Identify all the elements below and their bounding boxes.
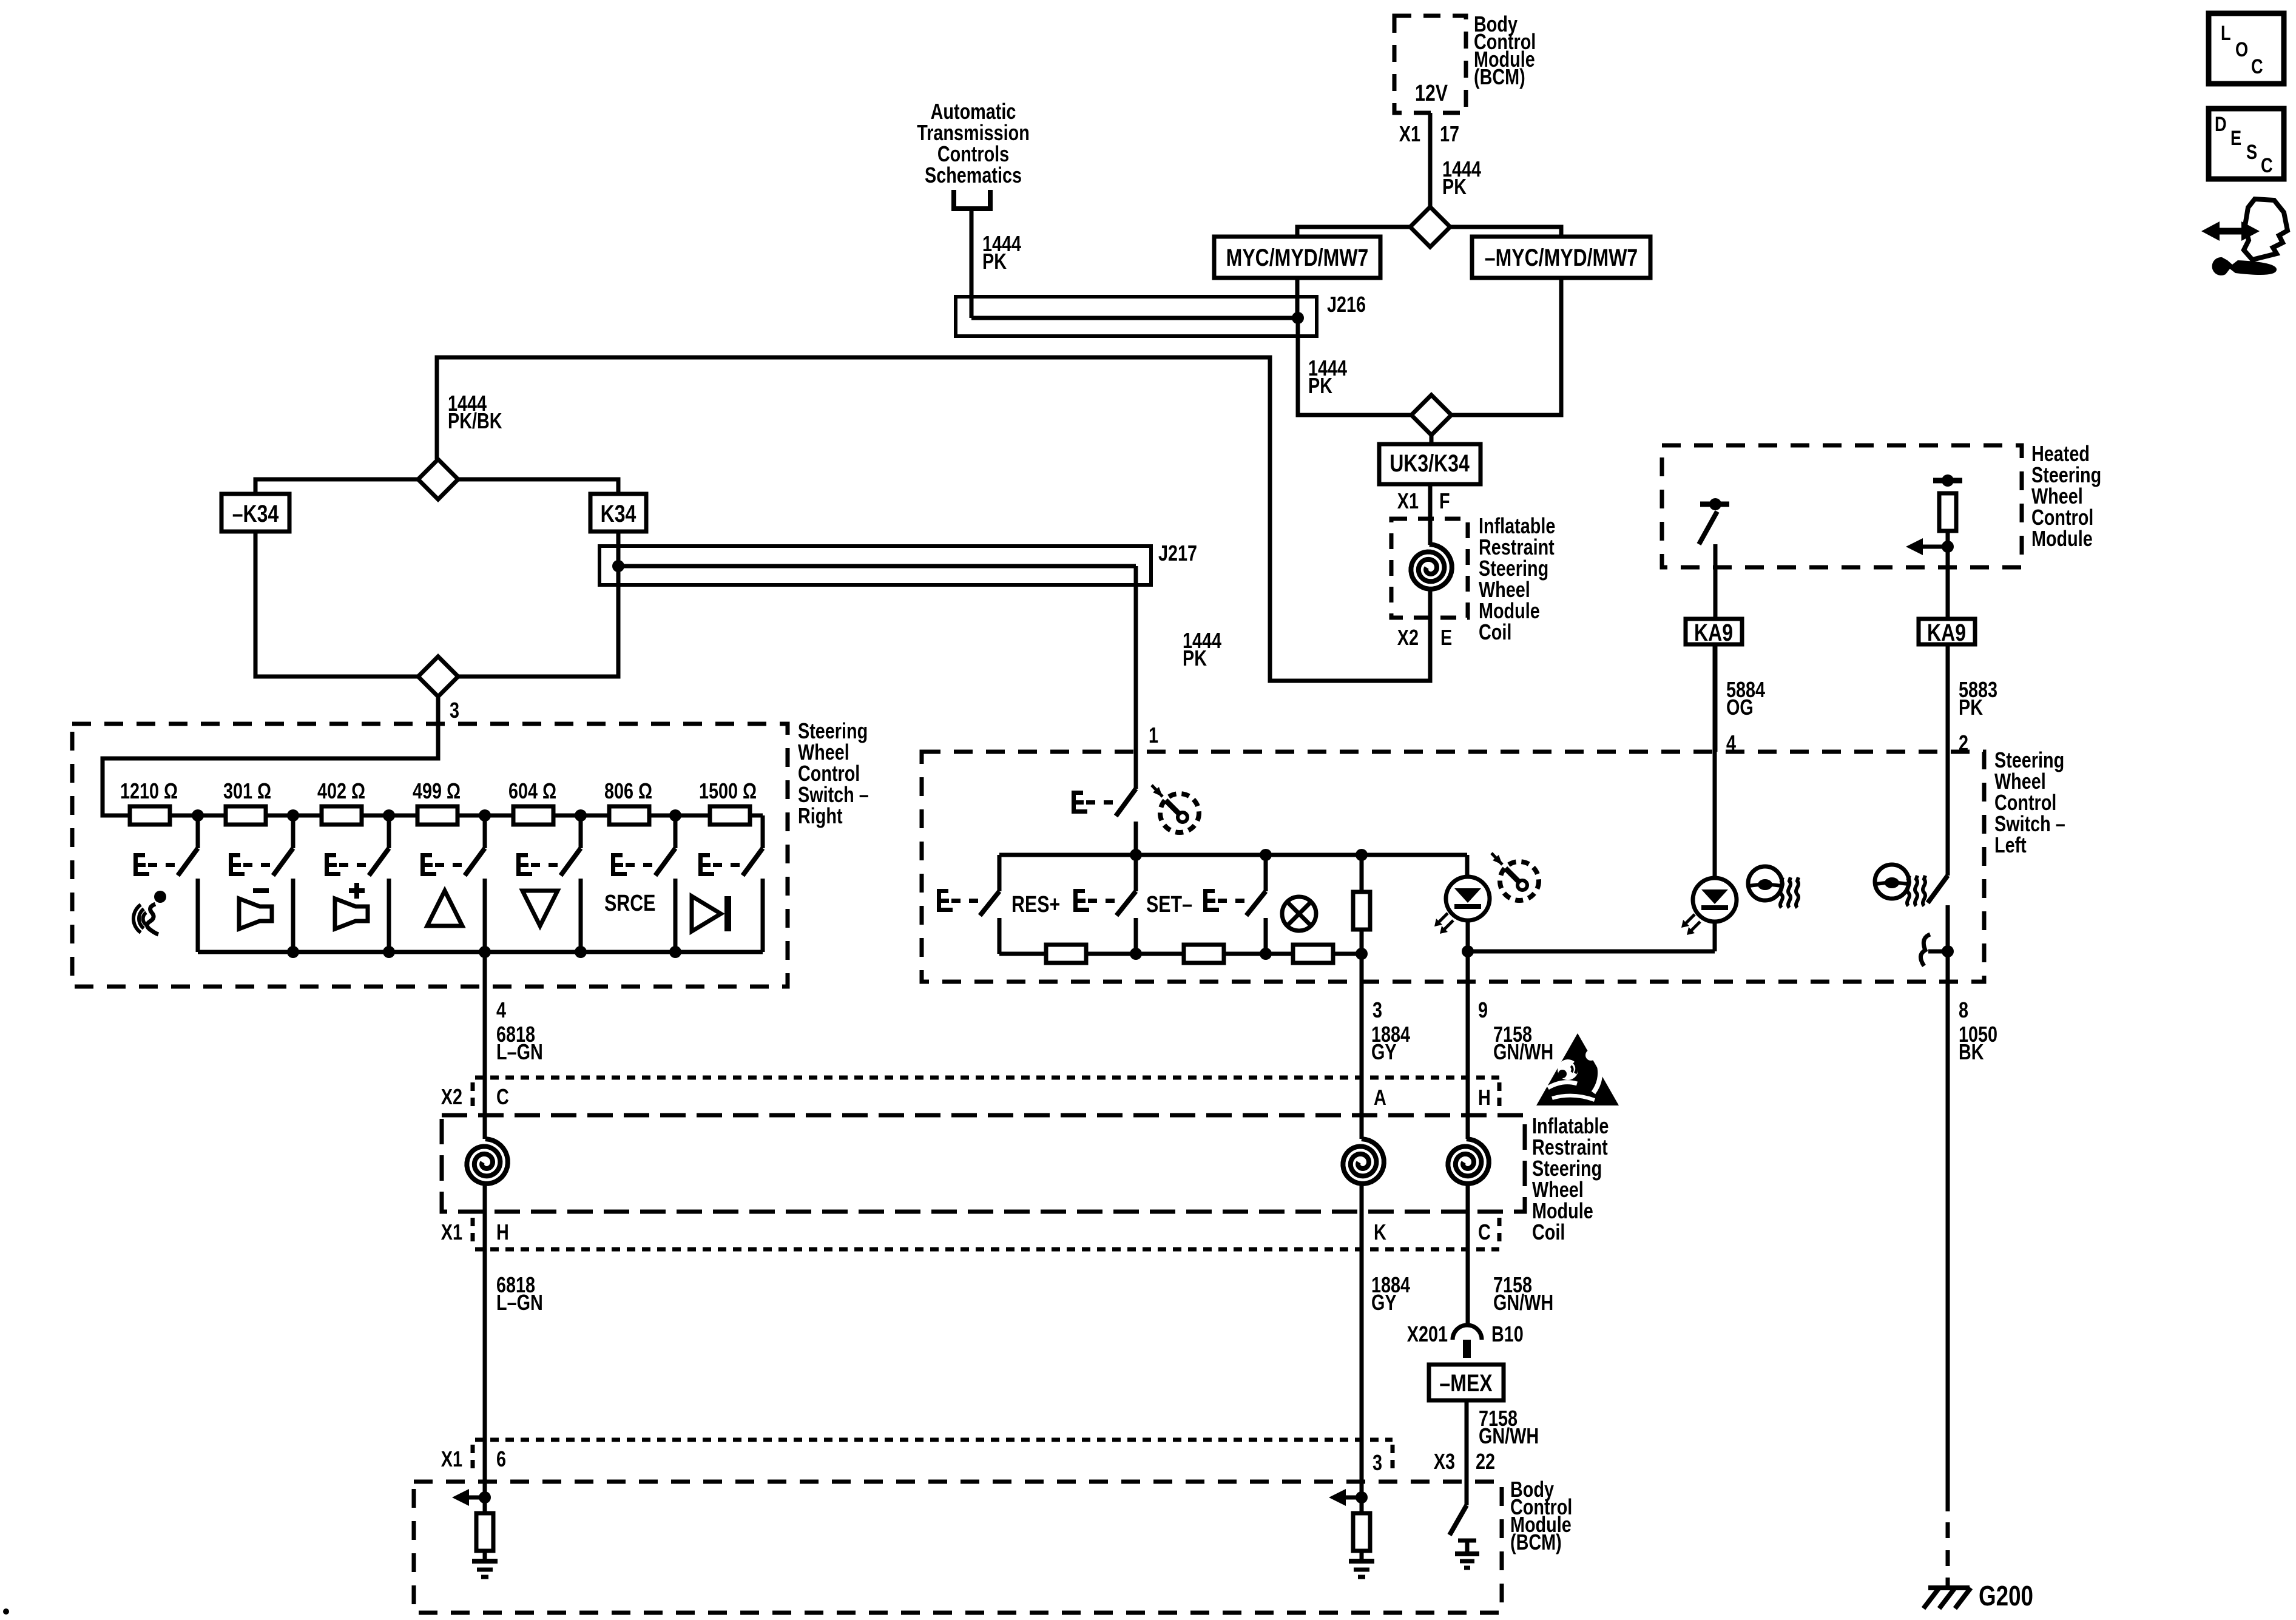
icon speaker minus (volume down): [253, 888, 269, 893]
svg-text:GY: GY: [1371, 1290, 1397, 1315]
junction node: [1356, 849, 1368, 861]
junction node: [383, 809, 395, 822]
wire cruise bus upper: [999, 853, 1467, 857]
wire 1050 BK dashed to ground: [1946, 1522, 1950, 1578]
junction node: [1260, 849, 1272, 861]
sense resistor element: [1933, 478, 1962, 484]
icon seek up triangle: [427, 891, 462, 926]
svg-text:KA9: KA9: [1927, 619, 1966, 646]
switch cruise on/off: [1116, 789, 1136, 816]
wire S2 to UK3/K34: [1430, 435, 1434, 444]
svg-text:KA9: KA9: [1694, 619, 1733, 646]
svg-text:J217: J217: [1158, 541, 1197, 565]
svg-text:X2: X2: [1397, 625, 1419, 650]
svg-text:D: D: [2215, 112, 2227, 136]
svg-text:GN/WH: GN/WH: [1493, 1290, 1553, 1315]
svg-text:Module: Module: [2031, 526, 2093, 551]
svg-text:X3: X3: [1434, 1449, 1455, 1474]
junction node: [1462, 945, 1474, 957]
wire 1050 BK: [1946, 980, 1950, 1511]
svg-text:4: 4: [496, 997, 506, 1022]
svg-text:Coil: Coil: [1479, 619, 1511, 644]
svg-text:X1: X1: [441, 1220, 462, 1244]
fuse KA9 left: [1686, 619, 1742, 644]
svg-text:H: H: [1478, 1085, 1491, 1110]
svg-text:6: 6: [496, 1446, 506, 1471]
resistor 1210 ohm: [130, 806, 170, 825]
wire S3 to -K34: [255, 479, 418, 494]
wire -MEX to BCM: [1465, 1400, 1469, 1505]
junction node bus: [383, 946, 395, 958]
junction node: [1130, 849, 1142, 861]
svg-text:RES+: RES+: [1011, 892, 1060, 917]
junction node: [192, 809, 204, 822]
wire coil low side loop: [437, 357, 1430, 681]
option box -K34: [221, 494, 289, 532]
svg-text:H: H: [496, 1220, 509, 1244]
junction node bus: [287, 946, 299, 958]
svg-text:GN/WH: GN/WH: [1479, 1423, 1539, 1448]
connector row X1: [475, 1247, 1499, 1252]
svg-text:806 Ω: 806 Ω: [604, 778, 652, 803]
wire cruise bus lower with resistors: [999, 952, 1362, 956]
junction node bus: [669, 946, 681, 958]
splice pack J217: [599, 546, 1151, 585]
svg-text:J216: J216: [1327, 292, 1366, 317]
wire 6818 L-GN: [483, 952, 487, 1139]
DESC reference box: [2209, 109, 2284, 179]
wire S3 to K34: [458, 479, 618, 494]
svg-text:301 Ω: 301 Ω: [223, 778, 271, 803]
resistor 806 ohm: [609, 806, 649, 825]
icon speedometer cruise indicator: [1500, 862, 1539, 900]
module BCM top dashed box: [1394, 16, 1466, 113]
module inflatable restraint coil dashed box (bottom): [442, 1115, 1525, 1212]
switch S3 right-box: [387, 815, 391, 848]
svg-text:3: 3: [1373, 997, 1382, 1022]
switch RES+: [998, 855, 1002, 891]
interactive navigation icon: [2216, 228, 2246, 235]
svg-text:L–GN: L–GN: [496, 1039, 543, 1064]
wire resistor ladder row: [103, 814, 763, 818]
resistor 1500 ohm: [710, 806, 750, 825]
svg-text:C: C: [2251, 55, 2263, 78]
ground internal: [1458, 1539, 1476, 1543]
fuse KA9 right: [1919, 619, 1975, 644]
svg-text:C: C: [2261, 154, 2273, 177]
page dot: [3, 1608, 9, 1615]
arrow signal left: [1341, 1496, 1362, 1500]
module Steering Wheel Control Switch - Right dashed box: [72, 724, 788, 987]
svg-text:PK: PK: [1183, 646, 1207, 670]
svg-text:–K34: –K34: [232, 500, 279, 527]
junction node: [1130, 948, 1142, 960]
wire 1884 GY: [1360, 954, 1364, 1139]
resistor 402 ohm: [322, 806, 362, 825]
svg-text:1210 Ω: 1210 Ω: [120, 778, 178, 803]
junction node bus: [479, 946, 491, 958]
wire 5883 PK: [1946, 644, 1950, 752]
warning airbag triangle: [1536, 1033, 1619, 1105]
svg-text:O: O: [2235, 38, 2248, 61]
module BCM bottom dashed box: [414, 1482, 1502, 1613]
svg-text:PK: PK: [1442, 174, 1467, 199]
splice S1 diamond: [1410, 207, 1450, 247]
LED heated indicator: [1713, 644, 1717, 879]
svg-text:L: L: [2221, 21, 2231, 45]
junction node momentary: [1942, 945, 1954, 957]
svg-text:PK/BK: PK/BK: [448, 408, 502, 433]
junction node: [575, 809, 587, 822]
wire 1444 PK from J216 to S2: [1298, 318, 1411, 415]
svg-text:12V: 12V: [1415, 81, 1448, 106]
svg-text:X1: X1: [1397, 488, 1419, 513]
svg-text:3: 3: [450, 698, 459, 723]
svg-text:A: A: [1374, 1085, 1386, 1110]
splice pack J216: [956, 297, 1317, 336]
switch SET-: [1134, 855, 1138, 891]
wire bottom bus right box: [198, 950, 763, 954]
svg-text:B10: B10: [1491, 1321, 1524, 1346]
svg-text:(BCM): (BCM): [1474, 64, 1525, 89]
wire S4 into right switch: [103, 697, 438, 815]
arrow feedback: [1918, 545, 1948, 549]
svg-text:MYC/MYD/MW7: MYC/MYD/MW7: [1226, 244, 1369, 271]
coil clockspring spiral (6818): [467, 1139, 507, 1184]
wire UK3/K34 to coil: [1428, 484, 1433, 545]
svg-text:GY: GY: [1371, 1039, 1397, 1064]
switch S6 right-box: [674, 815, 678, 848]
svg-text:BK: BK: [1959, 1039, 1984, 1064]
svg-text:3: 3: [1373, 1450, 1382, 1475]
svg-text:(BCM): (BCM): [1510, 1530, 1562, 1554]
wire 5884 OG: [1714, 644, 1718, 752]
svg-text:4: 4: [1726, 731, 1736, 755]
wire MYC down to J216: [1295, 278, 1300, 318]
switch S5 right-box: [579, 815, 583, 848]
coil clockspring spiral (7158): [1448, 1139, 1488, 1184]
svg-text:Right: Right: [798, 803, 843, 828]
svg-text:Left: Left: [1994, 832, 2027, 857]
wire K34 down through J217: [458, 532, 618, 677]
wire LED link: [1468, 950, 1715, 954]
junction node: [1260, 948, 1272, 960]
svg-text:UK3/K34: UK3/K34: [1389, 450, 1470, 477]
coil clockspring spiral (top): [1411, 544, 1451, 589]
switch S2 right-box: [291, 815, 295, 848]
resistor pull-up: [476, 1513, 493, 1551]
svg-text:499 Ω: 499 Ω: [413, 778, 461, 803]
icon next track: [692, 896, 721, 931]
svg-text:Coil: Coil: [1532, 1220, 1565, 1244]
junction node: [287, 809, 299, 822]
option box UK3/K34: [1379, 444, 1481, 484]
icon heated wheel B: [1875, 865, 1909, 899]
resistor cruise R2: [1184, 945, 1224, 963]
connector box inflatable restraint coil (top): [1391, 519, 1468, 618]
svg-text:SRCE: SRCE: [604, 891, 655, 916]
connector row X1 bottom: [475, 1438, 1393, 1442]
resistor pull-up: [1353, 1513, 1370, 1551]
svg-text:402 Ω: 402 Ω: [317, 778, 365, 803]
svg-text:E: E: [1440, 625, 1452, 650]
BCM driver switch 7158: [1450, 1505, 1467, 1535]
junction node: [669, 809, 681, 822]
icon speaker plus (volume up): [349, 888, 365, 893]
svg-text:X2: X2: [441, 1084, 462, 1109]
svg-text:604 Ω: 604 Ω: [508, 778, 556, 803]
svg-text:8: 8: [1959, 997, 1968, 1022]
svg-text:K34: K34: [601, 500, 636, 527]
resistor cruise R3: [1293, 945, 1333, 963]
svg-text:2: 2: [1959, 731, 1968, 755]
svg-text:G200: G200: [1979, 1580, 2033, 1612]
resistor 301 ohm: [226, 806, 266, 825]
module Steering Wheel Control Switch - Left dashed box: [922, 752, 1984, 982]
coil clockspring spiral (1884): [1343, 1139, 1383, 1184]
icon cancel lamp: [1282, 897, 1316, 931]
BCM input 1884: junction: [1360, 1482, 1364, 1516]
ground G200 chassis: [1946, 1578, 1950, 1588]
junction node bus: [575, 946, 587, 958]
svg-text:SET–: SET–: [1146, 892, 1192, 917]
wire 1444 PK to cruise switch (circuit 1): [1134, 566, 1138, 789]
option box -MEX: [1429, 1365, 1504, 1400]
junction node: [1356, 948, 1368, 960]
svg-text:K: K: [1374, 1220, 1386, 1244]
wire BCM X1-17 down: [1428, 113, 1433, 207]
svg-text:F: F: [1439, 488, 1450, 513]
arrow signal left: [464, 1496, 485, 1500]
svg-text:X1: X1: [441, 1446, 462, 1471]
svg-text:9: 9: [1478, 997, 1488, 1022]
svg-text:X1: X1: [1399, 121, 1420, 146]
resistor 604 ohm: [513, 806, 553, 825]
resistor vertical cruise: [1360, 855, 1364, 892]
svg-text:OG: OG: [1726, 695, 1754, 720]
wire -MYC down to S2: [1451, 278, 1561, 415]
svg-text:PK: PK: [982, 249, 1007, 274]
svg-text:E: E: [2230, 126, 2241, 150]
svg-text:C: C: [1478, 1220, 1491, 1244]
switch cancel: [1264, 855, 1268, 891]
option box -MYC/MYD/MW7: [1472, 237, 1650, 278]
LOC reference box: [2209, 13, 2284, 84]
splice S3 diamond: [418, 459, 458, 499]
svg-text:C: C: [496, 1084, 509, 1109]
svg-text:–MYC/MYD/MW7: –MYC/MYD/MW7: [1485, 244, 1638, 271]
svg-text:PK: PK: [1308, 373, 1332, 398]
icon seek down triangle: [522, 891, 558, 926]
switch heated on/off: [1946, 644, 1950, 876]
svg-text:1: 1: [1149, 723, 1158, 748]
svg-text:PK: PK: [1959, 695, 1983, 720]
svg-text:L–GN: L–GN: [496, 1290, 543, 1315]
wire -K34 down: [255, 532, 418, 677]
splice S2 diamond: [1411, 395, 1451, 435]
icon cruise speedometer: [1160, 794, 1199, 832]
BCM input 6818: junction: [483, 1482, 487, 1516]
option box MYC/MYD/MW7: [1214, 237, 1380, 278]
svg-text:17: 17: [1440, 121, 1459, 146]
option box K34: [590, 494, 646, 532]
svg-text:GN/WH: GN/WH: [1493, 1039, 1553, 1064]
svg-text:Schematics: Schematics: [925, 163, 1022, 187]
module Heated Steering Wheel Control Module dashed box: [1662, 445, 2022, 567]
splice S4 diamond: [418, 656, 458, 697]
icon heated wheel A: [1748, 866, 1782, 900]
svg-text:–MEX: –MEX: [1439, 1369, 1492, 1397]
svg-text:S: S: [2246, 140, 2257, 164]
ground internal: [1349, 1559, 1374, 1564]
switch S1 right-box: [196, 815, 200, 848]
svg-text:1500 Ω: 1500 Ω: [699, 778, 757, 803]
switch S4 right-box: [483, 815, 487, 848]
junction node: [1942, 541, 1954, 553]
svg-text:22: 22: [1476, 1449, 1495, 1474]
LED cruise indicator: [1465, 855, 1470, 877]
junction node: [479, 809, 491, 822]
svg-text:X201: X201: [1407, 1321, 1448, 1346]
wire to MYC option: [1297, 227, 1410, 237]
icon voice recognition: [143, 913, 146, 925]
ground internal: [472, 1559, 498, 1564]
driver switch element: [1700, 502, 1729, 507]
switch S7 right-box: [761, 815, 765, 848]
wire to -MYC option: [1450, 227, 1561, 237]
resistor 499 ohm: [417, 806, 458, 825]
connector row X2: [475, 1076, 1499, 1080]
wire from AT controls: [970, 209, 974, 318]
resistor cruise R1: [1046, 945, 1086, 963]
